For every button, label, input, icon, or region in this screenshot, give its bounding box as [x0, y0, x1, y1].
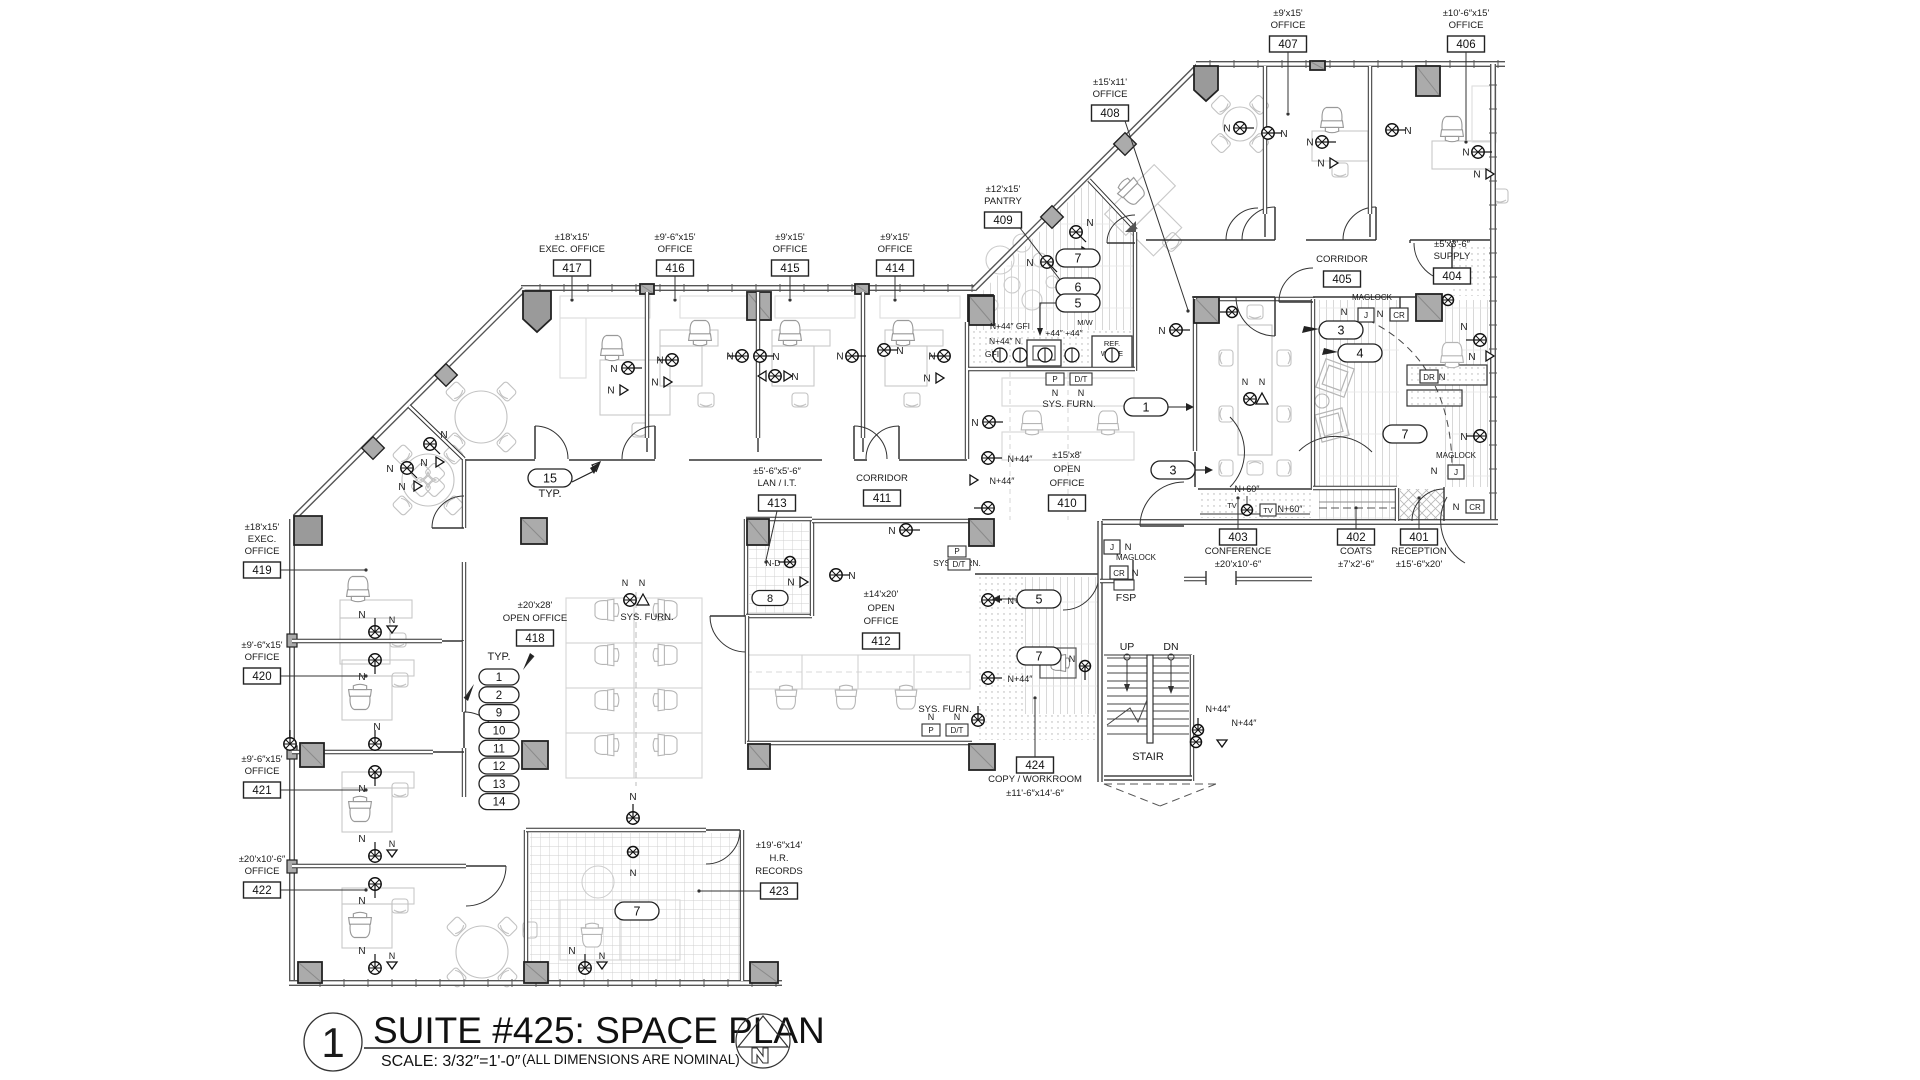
corridor 411 north wall segments [463, 459, 535, 461]
svg-text:N: N [629, 792, 636, 803]
svg-text:412: 412 [871, 636, 890, 648]
receptacle 418 south [579, 954, 591, 974]
svg-text:RECORDS: RECORDS [755, 866, 803, 877]
office 415 furniture [775, 296, 855, 318]
svg-text:407: 407 [1278, 39, 1297, 51]
svg-text:N: N [651, 378, 658, 389]
svg-text:N+44″: N+44″ [1008, 454, 1034, 464]
svg-text:±5'-6″x5'-6″: ±5'-6″x5'-6″ [753, 466, 801, 477]
svg-text:CR: CR [1393, 311, 1405, 320]
svg-text:±7'x2'-6″: ±7'x2'-6″ [1338, 559, 1375, 570]
reception west opening wall [1395, 488, 1399, 521]
svg-text:1: 1 [496, 672, 502, 684]
svg-text:EXEC.: EXEC. [248, 534, 277, 545]
coats rod [1319, 507, 1395, 509]
keynote 15 typ [528, 469, 572, 487]
open office 412 cubicles [746, 655, 802, 689]
svg-text:±9'x15': ±9'x15' [1273, 8, 1303, 19]
svg-text:±11'-6″x14'-6″: ±11'-6″x14'-6″ [1006, 788, 1064, 799]
svg-text:10: 10 [493, 726, 506, 738]
svg-text:8: 8 [767, 593, 773, 605]
svg-text:405: 405 [1332, 274, 1351, 286]
svg-text:N+44″ N: N+44″ N [989, 336, 1021, 346]
right diagonal mullion blocks [1114, 133, 1137, 156]
svg-text:FSP: FSP [1116, 592, 1136, 604]
svg-text:OPEN: OPEN [868, 603, 895, 614]
reception side floor [1445, 300, 1490, 487]
svg-text:±9'x15': ±9'x15' [775, 232, 805, 243]
svg-text:N: N [1026, 258, 1033, 269]
label coats 402 [1338, 529, 1375, 545]
left diagonal mullion blocks [435, 364, 458, 387]
corner column right wing top-left [1194, 66, 1218, 101]
column 420-421 left [300, 743, 324, 767]
conference center outlets [1244, 393, 1256, 405]
svg-text:N: N [568, 946, 575, 957]
svg-text:D/T: D/T [1075, 375, 1088, 384]
svg-text:N: N [389, 615, 396, 625]
vestibule south walls coats [1313, 486, 1397, 490]
svg-text:N: N [420, 458, 427, 469]
svg-text:STAIR: STAIR [1132, 751, 1164, 763]
column top band at 414 [855, 284, 869, 294]
column lan-it west [747, 519, 769, 545]
svg-text:423: 423 [769, 886, 788, 898]
svg-text:N: N [1223, 124, 1230, 135]
coats door [1299, 436, 1372, 452]
svg-text:±9'-6″x15': ±9'-6″x15' [241, 754, 282, 765]
svg-text:N+44″ GFI: N+44″ GFI [990, 321, 1030, 331]
open area round table A [455, 391, 507, 443]
corridor 411 south wall over 412 [812, 519, 970, 523]
receptacle lan-it [830, 569, 850, 581]
open office 418 lower cubicles [560, 900, 620, 960]
svg-text:6: 6 [1075, 281, 1082, 295]
hr records 423 west wall [524, 830, 528, 981]
hr records 423 tile floor [530, 833, 740, 981]
svg-text:N: N [1431, 466, 1438, 477]
door office 406 [1343, 207, 1376, 240]
lan-it room 413 walls [744, 519, 748, 616]
svg-text:P: P [1052, 375, 1057, 384]
svg-text:N: N [610, 364, 617, 375]
svg-text:±20'x10'-6″: ±20'x10'-6″ [239, 854, 286, 865]
reception guest chair [1441, 343, 1464, 368]
svg-text:OFFICE: OFFICE [245, 652, 280, 663]
receptacle 418 center [624, 594, 636, 606]
svg-text:N: N [398, 482, 405, 493]
entry vestibule crosshatch floor [1400, 489, 1444, 520]
svg-text:415: 415 [780, 263, 799, 275]
receptacle left wing offices [369, 618, 381, 638]
partition 420-421 [292, 750, 433, 754]
partition 419-420 [292, 639, 442, 643]
svg-text:N: N [888, 526, 895, 537]
svg-text:N: N [1125, 542, 1132, 553]
exec office 417 furniture [560, 296, 650, 318]
svg-text:N: N [622, 578, 629, 588]
vestibule-corridor door [1236, 297, 1275, 336]
svg-text:SUPPLY: SUPPLY [1434, 251, 1471, 262]
conference door upper east [1279, 268, 1313, 302]
svg-text:N+44″: N+44″ [1206, 704, 1232, 714]
svg-text:UP: UP [1120, 641, 1135, 653]
svg-text:3: 3 [1338, 324, 1345, 338]
svg-text:N: N [656, 356, 663, 367]
pantry fixtures circles [986, 246, 1014, 274]
svg-text:421: 421 [252, 785, 271, 797]
svg-text:N: N [1242, 377, 1249, 387]
open office 418 cubicles [566, 598, 634, 643]
svg-text:N: N [1259, 377, 1266, 387]
svg-text:403: 403 [1228, 532, 1247, 544]
svg-text:H.R.: H.R. [770, 853, 789, 864]
svg-text:N: N [954, 712, 961, 722]
svg-text:DN: DN [1163, 641, 1178, 653]
svg-text:OFFICE: OFFICE [773, 244, 808, 255]
door office 422 [466, 866, 506, 906]
vestibule lounge chairs [1316, 359, 1354, 397]
title underline [364, 1047, 683, 1049]
column top band mid [747, 292, 771, 320]
svg-text:±12'x15': ±12'x15' [986, 184, 1021, 195]
svg-text:N: N [358, 896, 365, 907]
stair dn arrow [1168, 654, 1174, 660]
svg-text:OPEN: OPEN [1054, 464, 1081, 475]
svg-text:MAGLOCK: MAGLOCK [1436, 451, 1477, 460]
column top wall at 406 [1416, 66, 1440, 96]
stair flights [1107, 658, 1189, 734]
svg-text:11: 11 [493, 743, 505, 755]
copy workroom 424 floor finish [977, 577, 1098, 740]
corridor-418 column [521, 518, 547, 544]
svg-text:±9'-6″x15': ±9'-6″x15' [654, 232, 695, 243]
reception DR box [1420, 370, 1438, 383]
svg-text:MAGLOCK: MAGLOCK [1352, 293, 1393, 302]
exterior left wall [289, 519, 295, 984]
door office 407 [1242, 207, 1275, 240]
svg-text:N: N [358, 610, 365, 621]
exec office 419 furniture [340, 600, 412, 618]
column 412 northeast [969, 519, 994, 546]
svg-text:404: 404 [1442, 271, 1462, 283]
svg-text:N: N [358, 672, 365, 683]
hr records door [706, 830, 740, 864]
svg-text:7: 7 [1075, 252, 1082, 266]
svg-text:N: N [971, 418, 978, 429]
svg-text:SYS. FURN.: SYS. FURN. [1042, 399, 1095, 410]
copy workroom small table [1040, 648, 1076, 678]
exterior bottom wall right wing [1102, 519, 1498, 525]
column top band right end [968, 295, 993, 323]
column top band at 416 [640, 284, 654, 294]
svg-text:N+44″: N+44″ [990, 476, 1016, 486]
copy workroom door [1063, 574, 1099, 610]
svg-text:RECEPTION: RECEPTION [1391, 546, 1447, 557]
svg-text:414: 414 [885, 263, 905, 275]
office 421 east wall [462, 748, 466, 797]
svg-text:OFFICE: OFFICE [658, 244, 693, 255]
conference east wall [1311, 299, 1315, 488]
column 412 southeast [969, 744, 995, 770]
svg-text:±20'x28': ±20'x28' [518, 600, 553, 611]
door office 414 [866, 426, 899, 459]
svg-text:N: N [389, 951, 396, 961]
svg-text:OFFICE: OFFICE [1449, 20, 1484, 31]
svg-text:N: N [1078, 388, 1085, 398]
lan-it 413 tile floor [749, 523, 809, 613]
svg-text:J: J [1454, 467, 1458, 477]
stair enclosure [1104, 654, 1192, 656]
conference credenza strip [1198, 490, 1312, 518]
exterior left diagonal curtain wall [295, 289, 524, 517]
svg-text:7: 7 [634, 905, 641, 919]
svg-text:±15'x8': ±15'x8' [1052, 450, 1082, 461]
supply 404 dotted floor [1453, 243, 1490, 296]
conference table [1238, 325, 1272, 455]
svg-text:422: 422 [252, 885, 271, 897]
conference north outlet [1170, 324, 1190, 336]
pantry gfi leader [1040, 303, 1056, 330]
svg-text:418: 418 [525, 633, 544, 645]
svg-text:N-D: N-D [765, 558, 780, 568]
svg-text:±19'-6″x14': ±19'-6″x14' [756, 840, 803, 851]
svg-text:N: N [1453, 502, 1460, 513]
svg-text:N: N [386, 464, 393, 475]
maglock dashed swing reception [1368, 320, 1452, 465]
svg-text:MAGLOCK: MAGLOCK [1116, 553, 1157, 562]
svg-text:N: N [1317, 159, 1324, 170]
svg-text:N: N [1377, 309, 1384, 320]
partition wall 416-415 [756, 292, 760, 438]
svg-text:CORRIDOR: CORRIDOR [1316, 254, 1368, 265]
svg-text:OFFICE: OFFICE [1093, 89, 1128, 100]
column left-wing south [298, 962, 322, 983]
svg-text:N: N [791, 372, 798, 383]
corridor 405 walls [1146, 239, 1226, 241]
svg-text:±15'x11': ±15'x11' [1093, 77, 1127, 88]
svg-text:OFFICE: OFFICE [245, 546, 280, 557]
conference 403 west wall [1193, 299, 1197, 451]
supply door [1414, 243, 1452, 281]
exterior right wall [1490, 64, 1496, 521]
svg-text:419: 419 [252, 565, 271, 577]
receptacle symbols diagonal partition [424, 438, 440, 454]
exterior bottom wall left wing [289, 980, 782, 986]
svg-text:OPEN OFFICE: OPEN OFFICE [503, 613, 567, 624]
svg-text:12: 12 [493, 761, 506, 773]
lan-it door [710, 616, 746, 652]
svg-text:N: N [848, 571, 855, 582]
svg-text:3: 3 [1170, 464, 1177, 478]
pantry counter dotted strip [970, 330, 1133, 370]
svg-text:N: N [599, 951, 606, 961]
keynote 5 pantry [1056, 294, 1100, 312]
office 408 furniture angled desk [1105, 165, 1200, 260]
label conference 403 [1220, 529, 1257, 545]
office 416 furniture [680, 296, 755, 318]
exterior top band curtain wall offices 414-417 [521, 285, 976, 291]
tv symbols conference [1242, 505, 1253, 516]
keynote 8 lan-it [752, 591, 788, 606]
svg-text:DR: DR [1423, 373, 1435, 382]
north arrow [736, 1014, 790, 1068]
label copy workroom 424 [1017, 757, 1054, 773]
partition 408-407 [1263, 66, 1267, 214]
keynote 7 pantry [1056, 249, 1100, 267]
svg-text:416: 416 [665, 263, 684, 275]
door office 417 [535, 426, 568, 459]
vestibule lounge floor finish [1319, 300, 1399, 518]
svg-text:SYS. FURN.: SYS. FURN. [918, 704, 971, 715]
svg-text:N: N [1306, 138, 1313, 149]
keynote 7 hr records [615, 902, 659, 920]
svg-text:N: N [358, 946, 365, 957]
stair break line [1107, 700, 1147, 725]
elevator lobby walls below entry [1184, 577, 1206, 581]
svg-text:J: J [1364, 310, 1368, 320]
svg-text:15: 15 [543, 472, 557, 486]
office 414 right wall [965, 322, 969, 459]
partition 407-406 [1368, 66, 1372, 214]
svg-text:N: N [1280, 129, 1287, 140]
svg-text:CR: CR [1469, 503, 1481, 512]
reception outlets [1466, 334, 1486, 346]
svg-text:EXEC. OFFICE: EXEC. OFFICE [539, 244, 605, 255]
svg-text:TV: TV [1227, 501, 1237, 510]
svg-text:±9'-6″x15': ±9'-6″x15' [241, 640, 282, 651]
svg-text:7: 7 [1402, 428, 1409, 442]
keynote 7 reception [1383, 425, 1427, 443]
supply 404 walls [1409, 240, 1411, 243]
column hr southeast [750, 962, 778, 983]
svg-text:N: N [726, 352, 733, 363]
label reception 401 [1401, 529, 1438, 545]
receptacle symbols pantry area [1070, 226, 1086, 242]
svg-text:N: N [836, 352, 843, 363]
keynote 6 pantry [1056, 278, 1100, 296]
svg-text:N+44″: N+44″ [1232, 718, 1258, 728]
keynote 3 vestibule [1319, 321, 1363, 339]
column vestibule ne [1416, 294, 1442, 321]
office 421 furniture [342, 772, 414, 788]
svg-text:N: N [1468, 352, 1475, 363]
svg-text:1: 1 [321, 1019, 344, 1066]
svg-text:N: N [1052, 388, 1059, 398]
svg-text:±18'x15': ±18'x15' [245, 522, 280, 533]
svg-text:N: N [639, 578, 646, 588]
svg-text:409: 409 [993, 215, 1012, 227]
svg-text:OFFICE: OFFICE [1050, 478, 1085, 489]
exterior right-wing diagonal curtain wall [974, 65, 1199, 289]
svg-text:TYP.: TYP. [487, 651, 510, 663]
keynote 1 conference wall [1124, 398, 1168, 416]
svg-text:(ALL DIMENSIONS ARE NOMINAL): (ALL DIMENSIONS ARE NOMINAL) [522, 1052, 740, 1067]
copy workroom north wall [975, 573, 1063, 575]
corner column top band left [523, 291, 551, 332]
svg-text:413: 413 [767, 498, 786, 510]
svg-text:5: 5 [1075, 297, 1082, 311]
pantry door [1107, 215, 1135, 243]
svg-text:N: N [358, 834, 365, 845]
svg-text:D/T: D/T [951, 726, 964, 735]
svg-text:1: 1 [1143, 401, 1150, 415]
conference north wall [1195, 297, 1315, 301]
partition wall 415-414 [861, 292, 865, 438]
svg-text:2: 2 [496, 690, 502, 702]
svg-text:REF.: REF. [1104, 339, 1120, 348]
mullion top wall right wing [1310, 61, 1325, 70]
corridor outlets 410 [983, 416, 1003, 428]
receptacle symbols offices 406-408 [1234, 122, 1254, 134]
office 420 east wall [462, 641, 466, 712]
column pantry bottom-left [969, 296, 994, 325]
svg-text:5: 5 [1036, 593, 1043, 607]
svg-text:COATS: COATS [1340, 546, 1372, 557]
hr records outlets [627, 804, 639, 824]
receptacles copy workroom [982, 452, 1002, 464]
office 414 furniture [880, 296, 960, 318]
office 422 furniture [342, 888, 414, 904]
office 407 furniture [1223, 107, 1257, 141]
exec 419 east wall upper [462, 459, 466, 528]
svg-text:N: N [1460, 432, 1467, 443]
svg-text:±14'x20': ±14'x20' [864, 589, 899, 600]
door exec 419 [432, 496, 464, 528]
svg-text:406: 406 [1456, 39, 1475, 51]
svg-text:9: 9 [496, 708, 502, 720]
svg-text:N: N [1473, 170, 1480, 181]
svg-text:OFFICE: OFFICE [864, 616, 899, 627]
svg-text:LAN / I.T.: LAN / I.T. [757, 478, 796, 489]
column conference nw [1194, 297, 1219, 323]
column mid 421 divider [522, 741, 548, 769]
svg-text:N+60″: N+60″ [1278, 504, 1304, 514]
stair center rail [1147, 655, 1153, 743]
svg-text:402: 402 [1346, 532, 1365, 544]
left wall mullion blocks [287, 634, 297, 647]
stair dashed demolition below [1104, 784, 1160, 806]
svg-text:4: 4 [1357, 347, 1364, 361]
svg-text:TYP.: TYP. [538, 488, 561, 500]
svg-text:D/T: D/T [953, 560, 966, 569]
svg-text:±10'-6″x15': ±10'-6″x15' [1443, 8, 1490, 19]
svg-text:CR: CR [1113, 569, 1125, 578]
keynote 3 conference door [1151, 461, 1195, 479]
svg-text:14: 14 [493, 797, 506, 809]
svg-text:417: 417 [562, 263, 581, 275]
keynote 7 copy [1017, 647, 1061, 665]
svg-text:N: N [607, 386, 614, 397]
svg-text:N: N [1158, 326, 1165, 337]
door office 415 [854, 426, 887, 459]
open office 410 cubicles [1002, 378, 1134, 406]
svg-text:N: N [896, 346, 903, 357]
svg-text:N: N [1341, 307, 1348, 318]
svg-text:N: N [928, 712, 935, 722]
conference credenza [1198, 488, 1312, 490]
open area round table B [402, 454, 454, 506]
receptacle symbols top offices [658, 354, 678, 366]
fsp closet walls [1100, 579, 1133, 583]
svg-text:J: J [1110, 542, 1114, 552]
pantry counter outlets [993, 348, 1007, 362]
svg-text:TV: TV [1263, 506, 1273, 515]
copy-stair west wall [1097, 521, 1102, 782]
door office 416 [622, 426, 655, 459]
office 422 round table [456, 926, 508, 978]
svg-text:±5'x3'-6″: ±5'x3'-6″ [1434, 239, 1471, 250]
